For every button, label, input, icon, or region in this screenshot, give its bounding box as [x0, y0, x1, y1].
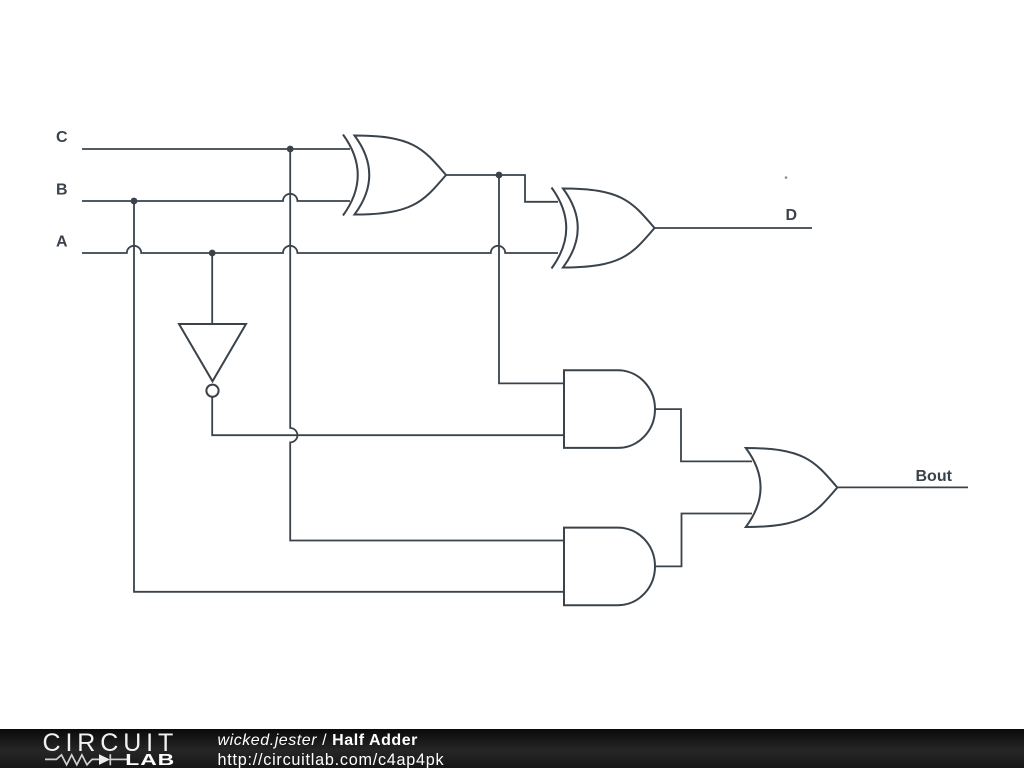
- wire net C horizontal: [82, 148, 350, 150]
- wire vertical from A junction to inverter input: [211, 253, 213, 325]
- svg-text:B: B: [56, 181, 68, 198]
- wire vertical from C junction to AND2 top input (hop over y=435 horizontal): [290, 149, 564, 541]
- svg-text:D: D: [786, 207, 798, 224]
- wire inverter output to AND1 bottom input: [212, 397, 564, 435]
- wire OR output to Bout: [837, 486, 968, 488]
- svg-text:http://circuitlab.com/c4ap4pk: http://circuitlab.com/c4ap4pk: [218, 751, 445, 768]
- inverter U3: [179, 324, 246, 397]
- node junction XOR1 output: [496, 172, 503, 179]
- node junction on net C: [287, 146, 294, 153]
- wire net B horizontal (hop over x=290 vertical): [82, 194, 350, 201]
- wire vertical from B junction to AND2 bottom input: [134, 201, 564, 592]
- node junction on net B: [131, 198, 138, 205]
- xor gate U1 (C xor B): [343, 135, 446, 216]
- and gate U5 (bottom): [564, 528, 655, 606]
- wire XOR1 output junction down to AND1 top input: [499, 175, 564, 383]
- svg-text:LAB: LAB: [125, 751, 175, 768]
- and gate U4 (top): [564, 370, 655, 448]
- footer bar: [0, 729, 1024, 768]
- CircuitLab logo resistor + diode art: [45, 754, 127, 765]
- stray dot artifact: [785, 176, 788, 179]
- svg-text:wicked.jester / Half Adder: wicked.jester / Half Adder: [218, 732, 418, 749]
- wire AND1 output jog to OR top input: [655, 409, 752, 461]
- svg-text:C: C: [56, 129, 68, 146]
- node junction on net A: [209, 250, 216, 257]
- wire net A horizontal (hops at x=134, x=290, x=498): [82, 246, 558, 253]
- wire XOR1 output to jog into XOR2 top input: [446, 175, 558, 202]
- xor gate U2 (output D): [552, 188, 655, 269]
- wire XOR2 output to D: [655, 227, 813, 229]
- or gate U6 (output Bout): [746, 448, 838, 527]
- svg-text:A: A: [56, 233, 68, 250]
- svg-text:Bout: Bout: [916, 468, 953, 485]
- wire AND2 output jog to OR bottom input: [655, 514, 752, 567]
